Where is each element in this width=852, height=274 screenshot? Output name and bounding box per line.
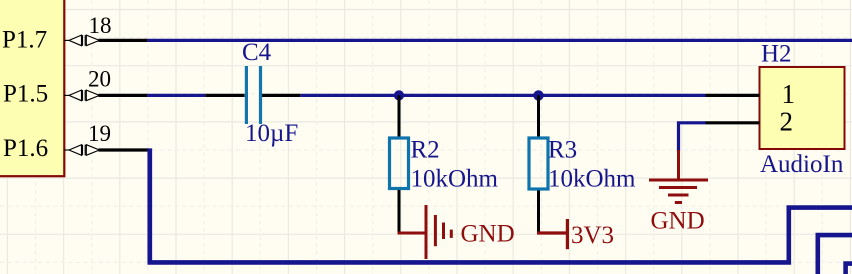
wire net P1.6 vertical drop bbox=[147, 148, 152, 262]
svg-text:R3: R3 bbox=[548, 137, 577, 164]
svg-text:GND: GND bbox=[651, 208, 705, 235]
wire net P1.7 (top horizontal) bbox=[147, 39, 852, 42]
power port 3V3 (bar symbol) bbox=[537, 219, 567, 249]
resistor R3 top lead bbox=[537, 95, 540, 137]
svg-text:P1.6: P1.6 bbox=[3, 135, 48, 162]
svg-text:18: 18 bbox=[89, 13, 112, 38]
connector H2 box bbox=[760, 67, 845, 149]
power port GND (right) stem bbox=[677, 150, 680, 179]
svg-text:3V3: 3V3 bbox=[571, 222, 614, 249]
svg-text:GND: GND bbox=[461, 221, 515, 248]
H2 pin 1 lead bbox=[706, 94, 760, 97]
H2 pin 2 lead bbox=[706, 121, 760, 124]
IC box U1 (left, partially visible) bbox=[0, 0, 64, 176]
resistor R3 bottom lead bbox=[537, 191, 540, 234]
pin 19 lead bbox=[99, 148, 150, 151]
svg-text:19: 19 bbox=[88, 121, 111, 146]
power port GND (right) bars bbox=[649, 180, 708, 203]
capacitor C4 right lead bbox=[262, 94, 300, 97]
power port GND (left, rotated bars) bbox=[398, 205, 452, 259]
svg-text:10µF: 10µF bbox=[245, 120, 298, 147]
svg-text:R2: R2 bbox=[411, 137, 440, 164]
resistor R2 body bbox=[390, 138, 409, 189]
wire H2 pin2 to GND bbox=[679, 123, 706, 152]
wire bottom-right stub B bbox=[818, 235, 852, 274]
svg-text:P1.7: P1.7 bbox=[2, 27, 47, 54]
svg-text:10kOhm: 10kOhm bbox=[411, 166, 499, 193]
junction node P1.5/R3 bbox=[533, 90, 543, 100]
pin 20 lead bbox=[99, 94, 148, 97]
junction node P1.5/R2 bbox=[394, 90, 404, 100]
svg-text:H2: H2 bbox=[761, 41, 792, 68]
pin 20 IO arrow symbol bbox=[64, 90, 99, 101]
resistor R2 top lead bbox=[398, 95, 401, 137]
svg-text:C4: C4 bbox=[242, 39, 272, 66]
svg-text:2: 2 bbox=[780, 107, 794, 137]
wire net P1.5 middle segment bbox=[300, 94, 705, 97]
svg-text:AudioIn: AudioIn bbox=[760, 151, 844, 178]
resistor R3 body bbox=[529, 138, 548, 189]
wire net P1.5 left segment bbox=[147, 94, 205, 97]
capacitor C4 plates bbox=[246, 66, 260, 124]
wire bottom-right stub C bbox=[846, 264, 852, 274]
svg-text:20: 20 bbox=[88, 67, 111, 92]
pin 18 IO arrow symbol bbox=[64, 35, 99, 46]
svg-text:1: 1 bbox=[782, 79, 796, 109]
svg-text:10kOhm: 10kOhm bbox=[548, 166, 636, 193]
resistor R2 bottom lead bbox=[398, 190, 401, 233]
pin 18 lead bbox=[99, 39, 148, 42]
capacitor C4 left lead bbox=[205, 94, 244, 97]
wire bottom bus horizontal bbox=[148, 208, 852, 263]
pin 19 IO arrow symbol bbox=[64, 145, 99, 156]
svg-text:P1.5: P1.5 bbox=[3, 81, 48, 108]
